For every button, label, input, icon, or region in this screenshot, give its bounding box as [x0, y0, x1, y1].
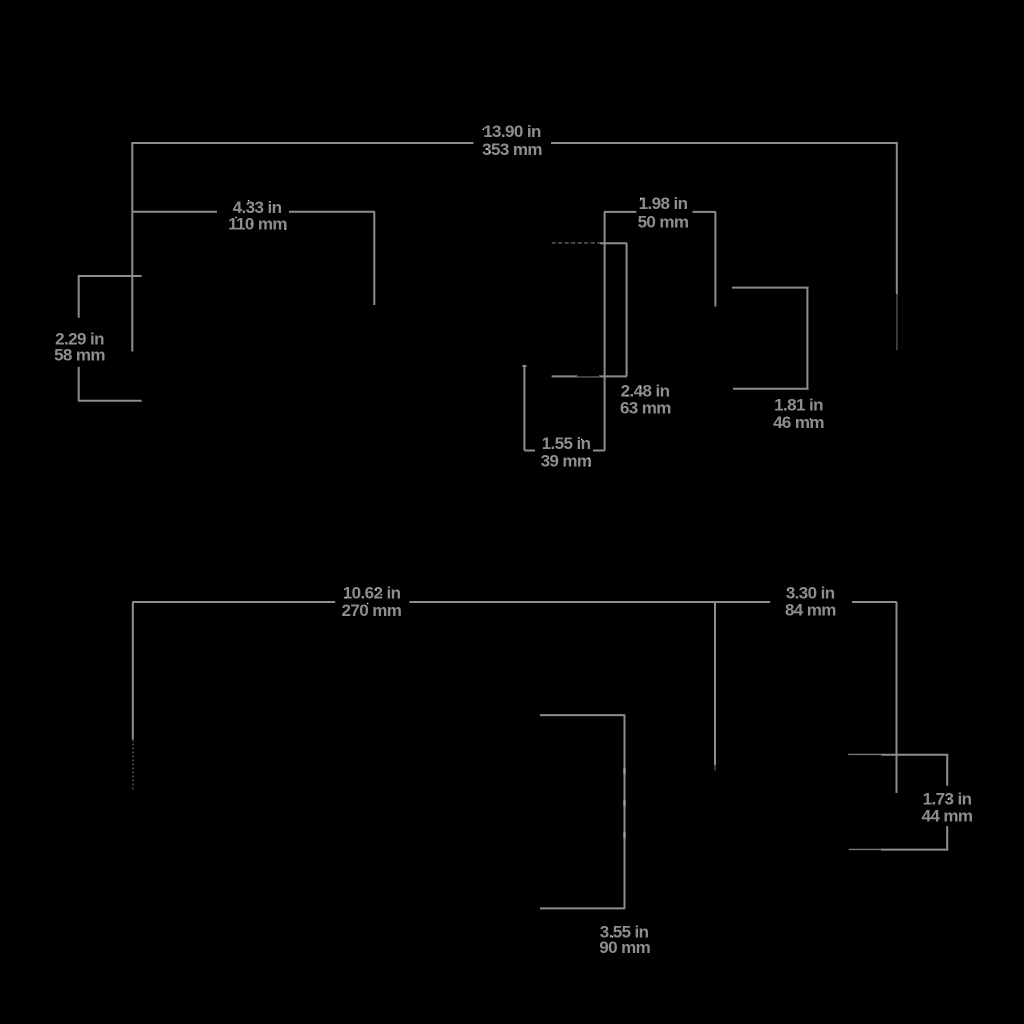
svg-text:84 mm: 84 mm [785, 601, 836, 620]
svg-text:1.81 in: 1.81 in [774, 396, 823, 415]
svg-text:46 mm: 46 mm [773, 413, 824, 432]
svg-text:110 mm: 110 mm [228, 215, 287, 234]
svg-text:50 mm: 50 mm [638, 213, 689, 232]
svg-text:39 mm: 39 mm [541, 451, 592, 470]
svg-text:63 mm: 63 mm [620, 399, 671, 418]
svg-text:90 mm: 90 mm [599, 938, 650, 957]
svg-text:270 mm: 270 mm [342, 601, 402, 620]
svg-text:10.62 in: 10.62 in [343, 584, 401, 603]
svg-text:58 mm: 58 mm [54, 345, 105, 364]
svg-text:1.98 in: 1.98 in [639, 194, 688, 213]
svg-text:13.90 in: 13.90 in [483, 122, 541, 141]
svg-text:44 mm: 44 mm [922, 807, 973, 826]
svg-text:353 mm: 353 mm [482, 140, 542, 159]
